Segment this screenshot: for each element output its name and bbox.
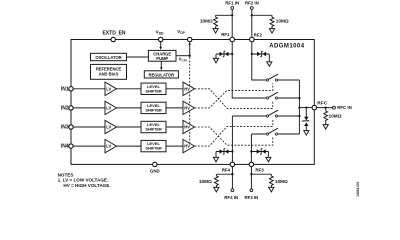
svg-text:LV: LV <box>106 144 111 149</box>
dashed control HV1 to rail2 <box>195 89 273 109</box>
wire R2 stub <box>252 14 272 16</box>
pin RF1 <box>230 37 235 42</box>
ground for R3 <box>214 187 219 192</box>
wire LS1 to HV1 <box>166 88 183 90</box>
svg-text:10MΩ: 10MΩ <box>200 19 213 24</box>
ground for R1 <box>213 29 218 33</box>
pin IN2 <box>61 106 73 112</box>
svg-text:HV: HV <box>184 144 190 149</box>
svg-text:RF2 IN: RF2 IN <box>245 1 259 6</box>
ESD diode pair at RF3 <box>250 148 268 157</box>
dashed VCPI supply line <box>189 57 191 146</box>
wire LV3 to LS3 <box>117 126 142 128</box>
wire RF4 to RF4 IN <box>231 166 233 188</box>
svg-text:GND: GND <box>150 168 160 173</box>
ESD diode pair at RF2 <box>251 51 270 62</box>
wire RF1 IN to RF1 <box>231 9 233 37</box>
RFC bus <box>298 80 300 134</box>
terminal RF3 IN <box>244 189 258 200</box>
block CHARGE PUMP <box>148 50 176 61</box>
wire RF1 feed to switch row2 <box>232 42 266 99</box>
ground at RF4 ESD <box>213 157 218 162</box>
svg-text:RF3 IN: RF3 IN <box>244 195 258 200</box>
driver HV2 <box>183 101 195 114</box>
wire LV2 to LS2 <box>117 107 142 109</box>
svg-text:14034-001: 14034-001 <box>356 181 360 196</box>
pin RF4 <box>222 162 235 172</box>
block LEVEL SHIFTER 4 <box>141 140 166 151</box>
block REGULATOR <box>144 71 178 78</box>
dashed control HV4 to rail3 <box>195 119 273 146</box>
wire RF2 feed to switch row1 <box>252 42 266 81</box>
wire bus to RFC pin <box>299 107 312 109</box>
node junction RF1-R1 <box>231 14 233 16</box>
label VDD <box>156 30 164 36</box>
notes <box>58 172 111 188</box>
wire charge pump to VCP pin with up arrow <box>176 42 191 63</box>
resistor R2 10MΩ <box>270 15 289 28</box>
pin RF3 <box>249 162 264 172</box>
switch S3 (RF4 to RFC) <box>266 110 299 117</box>
svg-text:RFC IN: RFC IN <box>337 105 352 110</box>
label RF2 <box>254 32 263 37</box>
driver HV4 <box>183 139 195 152</box>
switch S4 (RF3 to RFC) <box>266 128 299 135</box>
svg-text:10MΩ: 10MΩ <box>275 179 288 184</box>
terminal RF2 IN <box>245 1 259 10</box>
terminal RF1 IN <box>225 1 239 10</box>
wire IN2 to LV2 <box>73 107 105 109</box>
resistor R4 10MΩ <box>269 174 288 187</box>
svg-text:SHIFTER: SHIFTER <box>145 146 162 151</box>
wire RF4 feed to switch row3 <box>232 116 266 162</box>
svg-text:PUMP: PUMP <box>156 56 168 61</box>
svg-text:OSCILLATOR: OSCILLATOR <box>95 55 121 60</box>
block REFERENCE AND BIAS <box>91 64 127 79</box>
wire LS2 to HV2 <box>166 107 183 109</box>
svg-text:RFC: RFC <box>317 101 327 107</box>
svg-text:RF1 IN: RF1 IN <box>225 1 239 6</box>
buffer LV1 <box>105 82 117 95</box>
pin VDD <box>159 37 163 41</box>
svg-text:RF2: RF2 <box>254 32 263 37</box>
switch S1 (RF2 to RFC) <box>266 74 299 81</box>
block OSCILLATOR <box>91 53 127 60</box>
wire R1 stub <box>216 14 233 16</box>
wire R3 stub <box>216 173 232 175</box>
wire RFC to RFC IN <box>316 106 332 108</box>
svg-text:HV: HV <box>184 86 190 91</box>
wire IN3 to LV3 <box>73 126 105 128</box>
resistor R3 10MΩ <box>199 174 218 187</box>
figure number <box>356 181 360 196</box>
dashed control HV3 to rail4 <box>195 127 273 145</box>
pin RF2 <box>250 37 255 42</box>
svg-text:IN1: IN1 <box>61 86 69 92</box>
svg-text:ADGM1004: ADGM1004 <box>269 44 304 50</box>
driver HV1 <box>183 82 195 95</box>
wire LV4 to LS4 <box>117 145 142 147</box>
label EXTD_EN <box>102 30 125 36</box>
package outline ADGM1004 <box>71 40 314 165</box>
wire VDD to charge pump with arrow <box>160 42 162 51</box>
ground at RF3 ESD <box>266 157 271 162</box>
svg-text:SHIFTER: SHIFTER <box>145 88 162 93</box>
wire LV1 to LS1 <box>117 88 142 90</box>
svg-text:SHIFTER: SHIFTER <box>145 108 162 113</box>
ground at RF2 ESD <box>267 62 272 67</box>
svg-text:10MΩ: 10MΩ <box>199 179 212 184</box>
buffer LV4 <box>105 139 117 152</box>
svg-text:EXTD_EN: EXTD_EN <box>102 30 125 36</box>
resistor R5 10MΩ at RFC <box>324 108 342 125</box>
buffer LV2 <box>105 101 117 114</box>
svg-text:AND BIAS: AND BIAS <box>99 71 119 76</box>
ESD diode pair at RF1 <box>216 51 233 59</box>
svg-text:RF1: RF1 <box>221 32 230 37</box>
node junction RF2-R2 <box>251 14 253 16</box>
svg-text:NOTES: NOTES <box>58 172 74 177</box>
svg-text:HV = HIGH VOLTAGE.: HV = HIGH VOLTAGE. <box>63 183 110 188</box>
wire IN4 to LV4 <box>73 145 105 147</box>
ground at RF1 ESD <box>213 58 218 63</box>
pin IN1 <box>61 86 73 92</box>
svg-text:RF4: RF4 <box>222 168 231 173</box>
buffer LV3 <box>105 120 117 133</box>
wire charge pump to regulator with arrow <box>160 61 162 70</box>
pin EXTD_EN <box>111 37 115 41</box>
svg-text:IN4: IN4 <box>61 144 69 150</box>
pin VCP <box>188 37 192 41</box>
svg-text:RF3: RF3 <box>255 168 264 173</box>
svg-text:1. LV = LOW VOLTAGE.: 1. LV = LOW VOLTAGE. <box>58 178 109 183</box>
terminal RF4 IN <box>224 189 238 200</box>
svg-text:REGULATOR: REGULATOR <box>149 73 175 78</box>
ground at RFC ESD <box>304 131 309 136</box>
driver HV3 <box>183 120 195 133</box>
ground for R2 <box>269 29 274 33</box>
pin RFC <box>312 101 328 110</box>
svg-text:HV: HV <box>184 106 190 111</box>
label RF1 <box>221 32 230 37</box>
ESD diode pair at RF4 <box>216 148 234 157</box>
pin IN4 <box>61 144 73 150</box>
svg-text:10MΩ: 10MΩ <box>276 19 289 24</box>
pin IN3 <box>61 125 73 131</box>
ground for R5 <box>323 125 328 130</box>
switch S2 (RF1 to RFC) <box>266 92 299 99</box>
terminal RFC IN <box>333 105 352 110</box>
ESD diode pair at RFC <box>302 106 309 130</box>
wire LS4 to HV4 <box>166 145 183 147</box>
wire RF2 IN to RF2 <box>251 9 253 37</box>
wire RF3 feed to switch row4 <box>251 134 266 162</box>
dashed control HV2 to rail1 <box>195 83 273 108</box>
svg-text:SHIFTER: SHIFTER <box>145 127 162 132</box>
wire RF3 to RF3 IN <box>250 166 252 188</box>
resistor R1 10MΩ <box>200 15 218 28</box>
svg-text:RF4 IN: RF4 IN <box>224 195 238 200</box>
wire LS3 to HV3 <box>166 126 183 128</box>
block LEVEL SHIFTER 2 <box>141 102 166 113</box>
ground for R4 <box>269 187 274 192</box>
label VCP <box>177 29 185 35</box>
pin GND <box>150 162 160 173</box>
svg-text:IN2: IN2 <box>61 106 69 112</box>
block LEVEL SHIFTER 1 <box>141 83 166 94</box>
wire IN1 to LV1 <box>73 88 105 90</box>
svg-text:HV: HV <box>184 125 190 130</box>
svg-text:LV: LV <box>106 106 111 111</box>
svg-text:LV: LV <box>106 86 111 91</box>
svg-text:10MΩ: 10MΩ <box>329 113 342 118</box>
svg-text:VCPI: VCPI <box>179 57 187 63</box>
wire oscillator to charge pump <box>127 56 149 58</box>
wire R4 stub <box>251 173 271 175</box>
svg-text:IN3: IN3 <box>61 125 69 131</box>
block LEVEL SHIFTER 3 <box>141 121 166 132</box>
svg-text:LV: LV <box>106 125 111 130</box>
